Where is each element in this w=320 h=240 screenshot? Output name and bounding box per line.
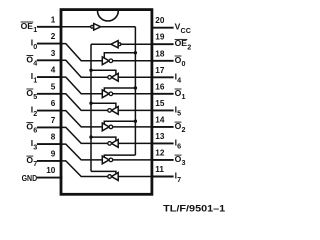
pin 10 wire (GND) (37, 177, 63, 179)
junction left rail / G6 enable (89, 135, 92, 138)
wire G3 output to pin16 O1 (113, 93, 152, 95)
enable line G4 to left rail (91, 103, 116, 108)
svg-text:4: 4 (33, 59, 37, 68)
wire pin11 I7 to G8 input (118, 176, 152, 178)
wire pin7 O6 diagonal to gate G6 output bubble (61, 127, 108, 143)
svg-text:5: 5 (33, 92, 37, 101)
svg-text:1: 1 (33, 25, 37, 34)
svg-text:10: 10 (46, 166, 56, 175)
wire pin15 I5 to G4 input (118, 109, 152, 111)
svg-text:GND: GND (22, 173, 38, 183)
wire G1 output to pin18 O0 (113, 60, 152, 62)
svg-text:20: 20 (155, 16, 165, 25)
svg-text:0: 0 (33, 42, 37, 51)
svg-text:3: 3 (182, 158, 186, 167)
wire G7 output to pin12 O3 (113, 159, 152, 161)
tri-state inverter G6 (I6->O6) triangle (111, 140, 118, 148)
inverter G8 output bubble (108, 175, 112, 179)
enable line G3 to right rail (104, 88, 135, 92)
junction right rail / G1 enable (134, 51, 137, 54)
wire pin5 O5 diagonal to gate G4 output bubble (61, 94, 108, 111)
svg-text:2: 2 (182, 125, 186, 134)
svg-text:1: 1 (51, 15, 56, 24)
wire I2 pin6 diagonal to gate G5 input (61, 111, 102, 127)
svg-text:2: 2 (187, 43, 191, 52)
tri-state inverter G4 (I5->O5) triangle (111, 107, 118, 115)
junction right rail / G3 enable (134, 86, 137, 89)
pin 3 wire (O4) (37, 59, 63, 61)
svg-text:6: 6 (177, 142, 181, 151)
inverter G4 output bubble (108, 109, 112, 113)
tri-state inverter G8 (I7->O7) triangle (111, 173, 118, 181)
svg-text:5: 5 (177, 109, 181, 118)
svg-text:15: 15 (155, 99, 165, 108)
enable buffer A1 triangle (94, 24, 101, 31)
svg-text:8: 8 (51, 133, 56, 142)
pin 17 wire (I4) (151, 76, 174, 78)
enable buffer A1 (OE1) input bubble (91, 25, 94, 28)
right enable rail (OE1 bank) (134, 27, 136, 155)
wire G5 output to pin14 O2 (113, 126, 152, 128)
junction right rail / G5 enable (134, 120, 137, 123)
svg-text:16: 16 (155, 82, 165, 91)
inverter G2 output bubble (108, 76, 112, 80)
enable line G8 to left rail (91, 171, 116, 174)
svg-text:7: 7 (177, 175, 181, 184)
enable line G5 to right rail (104, 121, 135, 125)
svg-text:2: 2 (51, 32, 56, 41)
wire pin3 O4 diagonal to gate G2 output bubble (61, 60, 108, 77)
svg-text:5: 5 (51, 82, 56, 91)
IC body U1 (20-pin DIP outline) (61, 10, 152, 195)
pin 12 wire (O3) (151, 159, 174, 161)
pin 9 wire (O7) (37, 160, 63, 162)
pin 14 wire (O2) (151, 126, 174, 128)
svg-text:2: 2 (33, 109, 37, 118)
enable line G1 to right rail (104, 53, 135, 59)
pin 19 wire (OE2) (151, 43, 174, 45)
inverter G1 output bubble (109, 59, 113, 63)
wire pin9 O7 diagonal to gate G8 output bubble (61, 161, 108, 177)
inverter G3 output bubble (109, 92, 113, 96)
svg-text:11: 11 (155, 165, 164, 174)
enable line G6 to left rail (91, 137, 116, 141)
pin 1 wire (OE1) (37, 26, 63, 28)
wire I0 pin2 diagonal to gate G1 input (61, 44, 102, 61)
pin 16 wire (O1) (151, 93, 174, 95)
svg-text:4: 4 (51, 66, 56, 75)
inverter G7 output bubble (109, 158, 113, 162)
pin 11 wire (I7) (151, 176, 174, 178)
pin 5 wire (O5) (37, 93, 63, 95)
pin 18 wire (O0) (151, 60, 174, 62)
left enable rail (OE2 bank) (90, 44, 92, 171)
wire pin19 OE2 to input bubble (121, 43, 152, 45)
wire pin13 I6 to G6 input (118, 142, 152, 144)
tri-state inverter G5 (I2->O2) triangle (102, 123, 109, 131)
pin 13 wire (I6) (151, 142, 174, 144)
tri-state inverter G7 (I3->O3) triangle (102, 156, 109, 164)
svg-text:12: 12 (155, 148, 165, 157)
pin 20 wire (VCC) (151, 27, 174, 29)
enable buffer A2 (OE2) input bubble (118, 43, 121, 46)
tri-state inverter G2 (I4->O4) triangle (111, 73, 118, 81)
pin 2 wire (I0) (37, 43, 63, 45)
enable buffer A2 triangle (left-pointing) (111, 41, 118, 48)
enable line G7 to right rail (104, 155, 135, 158)
junction left rail / G4 enable (89, 102, 92, 105)
svg-text:4: 4 (177, 76, 181, 85)
pin-1 index notch (98, 11, 119, 21)
pin 15 wire (I5) (151, 109, 174, 111)
svg-text:17: 17 (155, 66, 165, 75)
enable line G2 to left rail (91, 70, 116, 75)
svg-text:14: 14 (155, 115, 165, 124)
pin 7 wire (O6) (37, 126, 63, 128)
tri-state inverter G1 (I0->O0) triangle (102, 57, 109, 65)
junction left rail / G2 enable (89, 69, 92, 72)
wire pin17 I4 to G2 input (118, 76, 152, 78)
pin 6 wire (I2) (37, 110, 63, 112)
inverter G5 output bubble (109, 125, 113, 129)
svg-text:13: 13 (155, 132, 165, 141)
svg-text:3: 3 (33, 142, 37, 151)
svg-text:1: 1 (182, 92, 186, 101)
inverter G6 output bubble (108, 142, 112, 146)
pin 8 wire (I3) (37, 143, 63, 145)
svg-text:0: 0 (182, 59, 186, 68)
svg-text:7: 7 (33, 159, 37, 168)
wire pin1 OE1 to input bubble (61, 26, 91, 28)
svg-text:6: 6 (33, 126, 37, 135)
svg-text:7: 7 (51, 116, 56, 125)
svg-text:3: 3 (51, 49, 56, 58)
wire I1 pin4 diagonal to gate G3 input (61, 77, 102, 94)
svg-text:18: 18 (155, 49, 165, 58)
svg-text:TL/F/9501–1: TL/F/9501–1 (163, 204, 225, 214)
pin 4 wire (I1) (37, 76, 63, 78)
wire A2 output to left enable rail (91, 43, 111, 45)
svg-text:CC: CC (181, 26, 191, 35)
tri-state inverter G3 (I1->O1) triangle (102, 90, 109, 98)
svg-text:1: 1 (33, 75, 37, 84)
svg-text:6: 6 (51, 99, 56, 108)
svg-text:9: 9 (51, 149, 56, 158)
wire I3 pin8 diagonal to gate G7 input (61, 144, 102, 160)
svg-text:19: 19 (155, 33, 165, 42)
wire A1 output to right enable rail (101, 26, 136, 28)
